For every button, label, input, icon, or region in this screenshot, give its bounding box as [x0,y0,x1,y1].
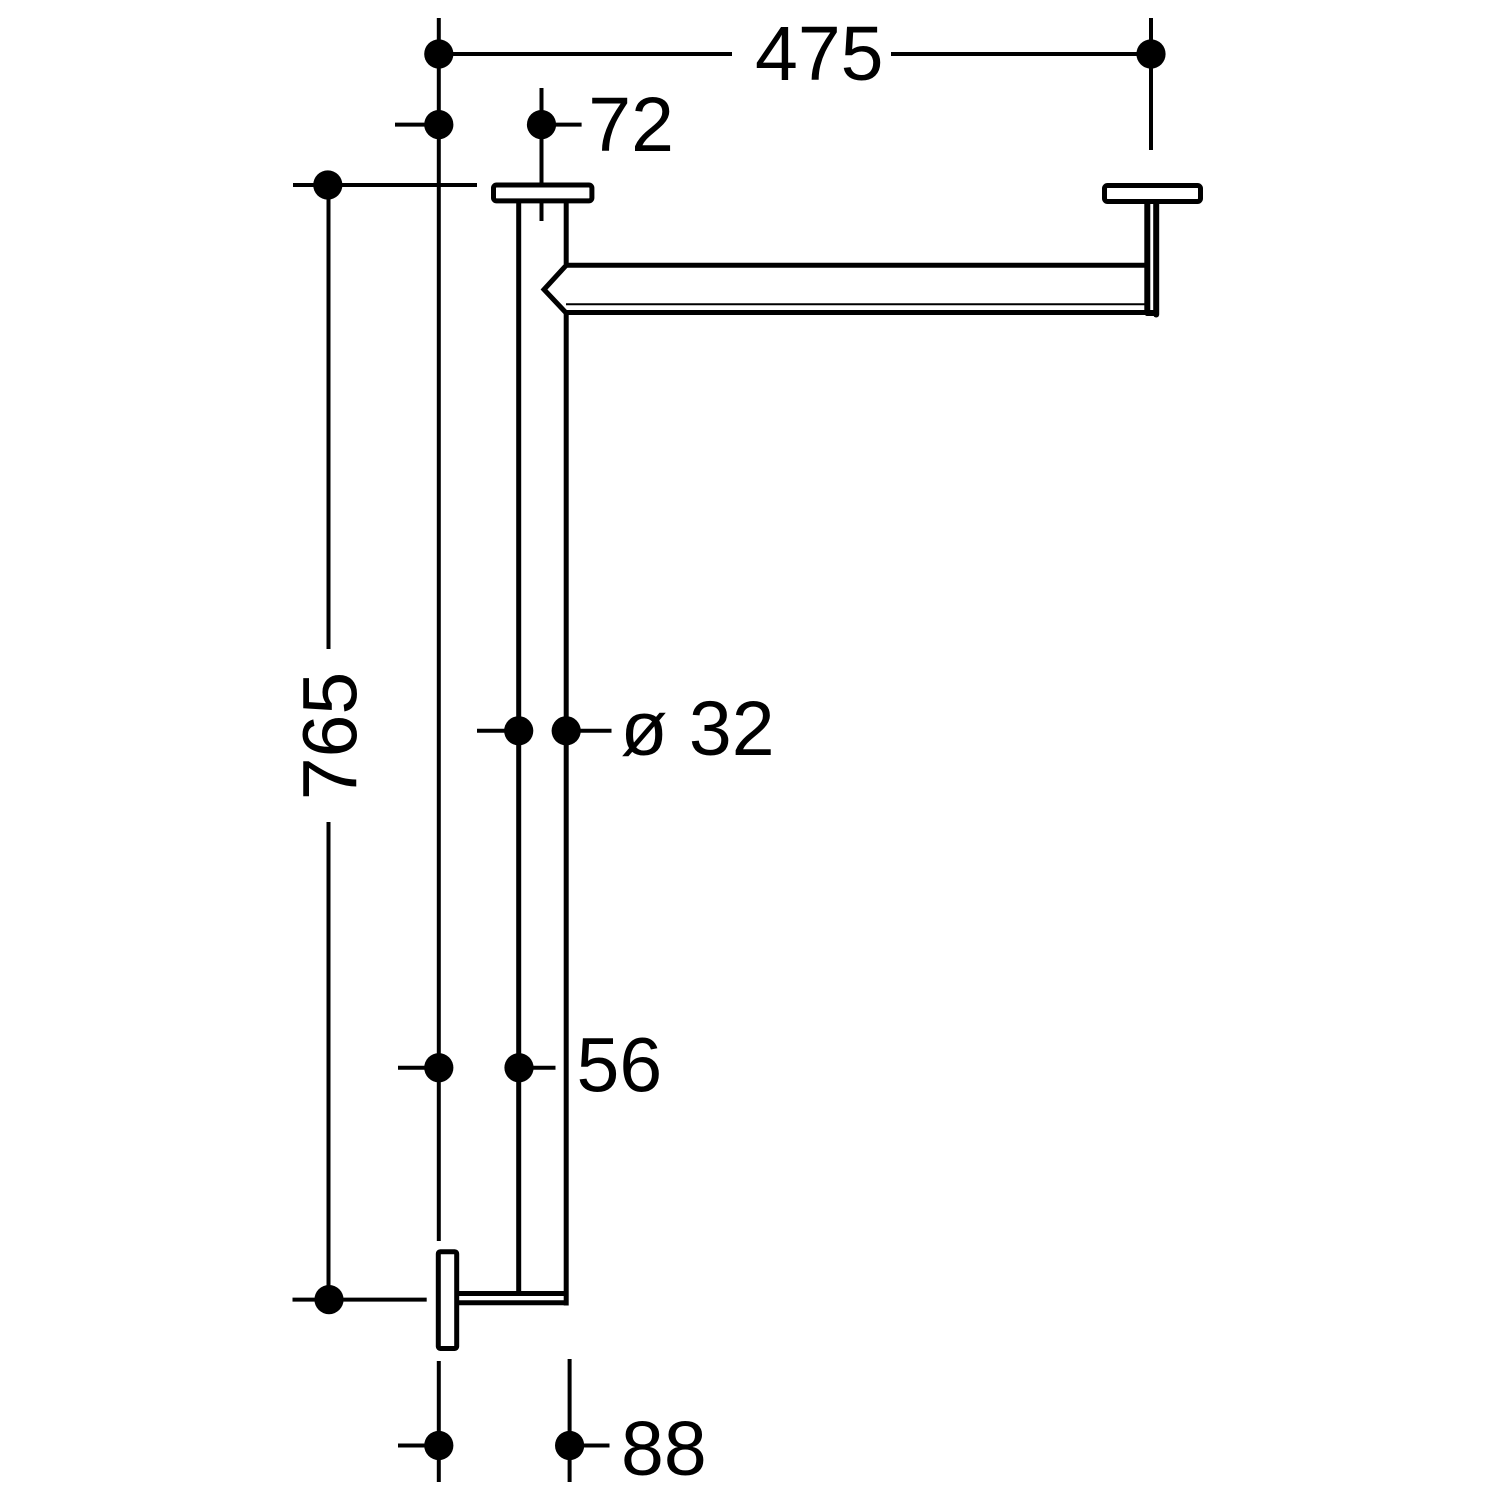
svg-text:475: 475 [755,11,883,97]
horizontal arm pointed left end (chevron) [544,265,566,313]
extension line through left flange centre [540,88,544,221]
dot 72 right [527,110,556,139]
tick left of diameter-32 left dot [477,729,519,733]
extension line left vertical lower part below foot [437,1361,441,1482]
bottom foot plate [438,1252,456,1349]
tick left of 56 left dot [398,1066,439,1070]
svg-text:88: 88 [621,1406,707,1492]
tick right of 88 right dot [570,1444,610,1448]
dimension line 475 right segment [891,52,1151,56]
vertical rail right edge lower segment down to toe bottom [564,314,569,1306]
dot 765 top [313,170,342,199]
svg-text:765: 765 [288,672,374,800]
dimension line 765 upper segment [327,185,331,649]
dot 475 right [1136,39,1165,68]
dot 765 bottom [314,1285,343,1314]
tick left of 72 left dot [395,123,439,127]
vertical rail right edge upper segment [564,203,569,264]
bottom toe bottom edge [457,1300,569,1305]
extension line below toe right end [568,1359,572,1482]
bottom toe top edge [457,1291,566,1296]
tick right of 72 right dot [542,123,582,127]
dot 56 right [504,1053,533,1082]
extension line horizontal at foot bottom (765 bottom) [293,1298,427,1302]
dot 72 left [424,110,453,139]
dot diameter-32 left [504,716,533,745]
vertical rail left edge [516,203,521,1293]
svg-text:ø 32: ø 32 [621,686,775,772]
svg-text:72: 72 [588,82,674,168]
dot 88 left [424,1431,453,1460]
horizontal arm bottom edge [564,310,1159,315]
horizontal arm inner highlight line [566,303,1146,305]
tick right of diameter-32 right dot [566,729,612,733]
extension line horizontal at flange top (765 top) [293,183,477,187]
tick right of 56 right dot [519,1066,556,1070]
left wall flange plate [494,185,592,201]
right wall flange plate [1105,186,1201,202]
dimension line 475 left segment [439,52,732,56]
svg-text:56: 56 [577,1023,663,1109]
right support post left edge [1144,204,1150,312]
extension line through right flange centre [1149,18,1153,150]
dot diameter-32 right [552,716,581,745]
right support post bottom cap [1147,312,1156,316]
right support post right edge [1153,204,1159,315]
horizontal arm top edge [564,263,1147,268]
dot 475 left [424,39,453,68]
tick left of 88 left dot [398,1444,439,1448]
extension line left vertical (through 475/72/56/88 dots) upper part [437,18,441,1241]
dot 56 left [424,1053,453,1082]
dimension line 765 lower segment [327,822,331,1300]
dot 88 right [555,1431,584,1460]
